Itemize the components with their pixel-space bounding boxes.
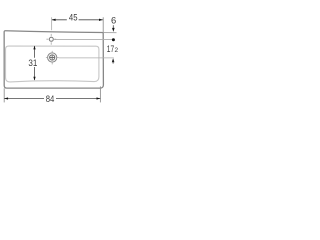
arrow 17 up [112, 58, 115, 62]
arrow 84 right [97, 97, 101, 99]
extension line 84 left below basin [3, 88, 5, 102]
basin bowl inner outline [6, 46, 99, 82]
extension line drain axis to 17 arrow [59, 57, 114, 59]
arrow 6 down [112, 28, 115, 32]
svg-text:84: 84 [46, 93, 55, 104]
tap hole centerline ticks [46, 34, 56, 45]
svg-text:172: 172 [107, 43, 119, 54]
drain inner circle [50, 55, 55, 60]
extension line 45 left (tap axis vertical) [51, 17, 53, 30]
drain outer circle [48, 53, 57, 62]
dim line 45 [52, 19, 103, 21]
extension line 45 right (basin edge extended up) [102, 17, 104, 32]
extension line tap axis to dot [54, 39, 112, 41]
tap hole [49, 37, 53, 41]
basin outer outline [4, 31, 103, 88]
dot shared terminator [112, 38, 115, 41]
dim line 6 vertical [112, 25, 114, 28]
arrow 84 left [4, 97, 8, 99]
svg-text:45: 45 [69, 11, 78, 22]
extension line basin top edge to right [103, 32, 116, 34]
arrow 31 up [33, 46, 35, 50]
arrow 45 right [99, 19, 103, 21]
arrow 31 down [33, 77, 35, 81]
arrow 45 left [52, 19, 56, 21]
dim line 17 arrow tail [112, 62, 114, 64]
svg-text:6: 6 [111, 15, 116, 26]
dim line 84 [4, 98, 100, 100]
dim line 31 vertical [34, 46, 36, 80]
svg-text:31: 31 [28, 57, 37, 68]
extension line 84 right below basin [99, 86, 101, 102]
drain grate cross [50, 55, 55, 60]
drain centerline ticks [46, 51, 59, 65]
